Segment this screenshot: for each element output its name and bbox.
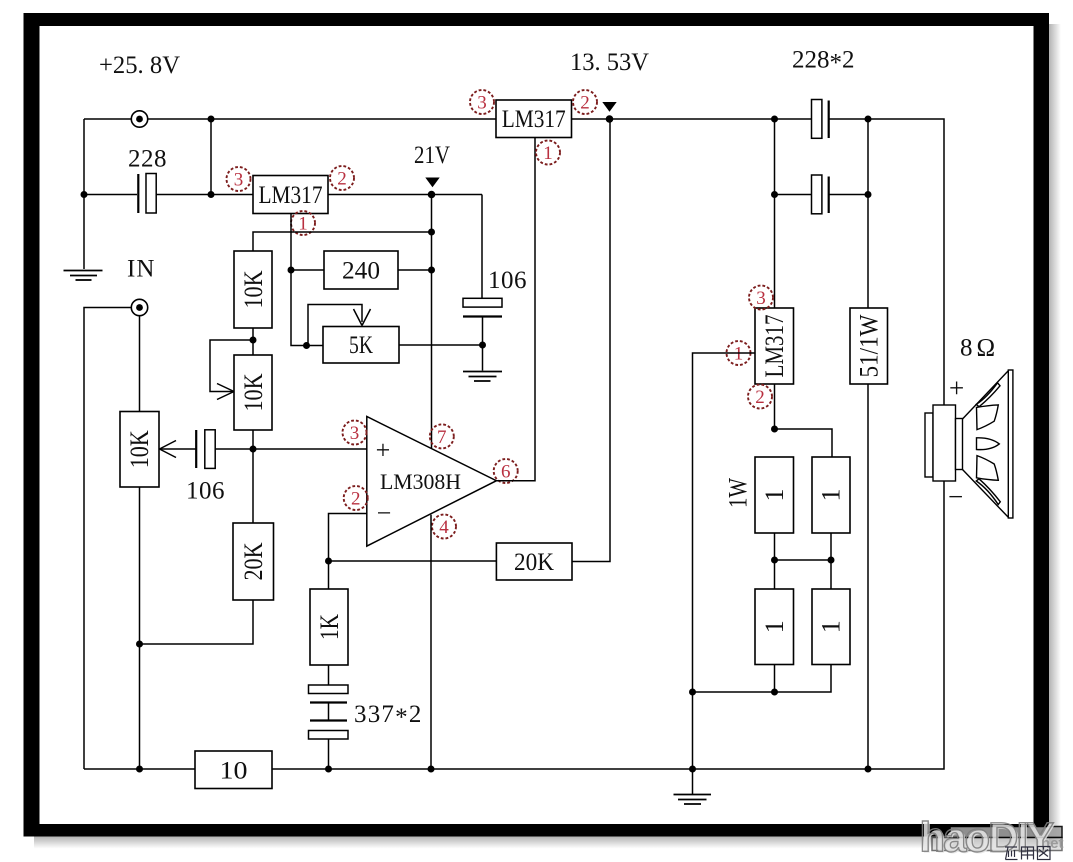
node x431 y270: [428, 267, 435, 274]
svg-text:LM308H: LM308H: [380, 469, 461, 494]
svg-text:106: 106: [488, 267, 527, 294]
resistor R3 10K (input pot): [120, 412, 159, 488]
svg-text:240: 240: [342, 258, 380, 285]
pin 7 U4: [430, 424, 454, 448]
terminal J1 (+25.8V input): [131, 111, 147, 127]
wire C2 to node: [215, 448, 253, 450]
capacitor C3 106: [463, 298, 502, 316]
pin 2 U2: [573, 90, 597, 114]
svg-text:1K: 1K: [315, 614, 344, 640]
svg-text:−: −: [948, 482, 963, 512]
wire rail2 cap to LM317 U1: [157, 194, 254, 196]
wire 20K drop: [252, 449, 254, 523]
svg-text:228: 228: [128, 146, 167, 173]
svg-text:4: 4: [439, 517, 449, 538]
ground G2: [463, 372, 502, 382]
resistor R10 1: [812, 457, 850, 533]
wire left drop to ground: [83, 119, 85, 269]
svg-text:3: 3: [756, 288, 766, 309]
svg-text:+25. 8V: +25. 8V: [99, 52, 180, 79]
pin 6 U4: [494, 459, 518, 483]
node U3 out: [771, 426, 778, 433]
capacitor C2 106: [196, 430, 215, 469]
wiper arrow of 5K: [354, 309, 371, 326]
svg-text:net: net: [1041, 835, 1064, 852]
wire IN terminal to R 10K: [139, 316, 141, 412]
svg-text:10: 10: [220, 758, 248, 785]
wire C4 to C5: [328, 704, 330, 721]
svg-text:1: 1: [817, 620, 846, 633]
op-amp U4 LM308H: [367, 417, 497, 547]
pin 3 U2: [470, 90, 494, 114]
pin 2 U4: [344, 486, 368, 510]
node top rail x211: [208, 116, 215, 123]
svg-text:2: 2: [351, 489, 361, 510]
node top rail x868: [865, 116, 872, 123]
svg-text:2: 2: [755, 387, 765, 408]
regulator U3 LM317: [755, 308, 794, 384]
node R3 bottom x140 y644: [136, 641, 143, 648]
wire C7 left: [775, 194, 812, 196]
node top rail x774: [771, 116, 778, 123]
resistor R13 51/1W: [850, 308, 888, 384]
svg-text:51/1W: 51/1W: [855, 314, 884, 377]
capacitor C4 337: [309, 685, 349, 703]
regulator U2 LM317: [496, 100, 572, 138]
wire R3 bottom to bottom rail: [139, 487, 141, 769]
wire C3 to ground node: [482, 317, 484, 346]
svg-text:337*2: 337*2: [354, 701, 423, 731]
capacitor C1 228: [138, 174, 156, 214]
wire ground stem G3: [692, 769, 694, 794]
wire feedback to 20K: [329, 560, 497, 562]
marker 21V arrow: [425, 178, 439, 188]
pin 1 U1: [291, 211, 315, 235]
pin 3 U3: [749, 286, 773, 310]
svg-text:21V: 21V: [414, 142, 450, 169]
svg-text:7: 7: [437, 427, 447, 448]
regulator U1 LM317: [253, 176, 328, 214]
svg-text:8Ω: 8Ω: [960, 335, 999, 362]
node y232 x431: [428, 229, 435, 236]
node noninverting input: [250, 446, 257, 453]
svg-text:2: 2: [580, 93, 590, 114]
svg-text:13. 53V: 13. 53V: [570, 49, 649, 76]
wire output pin6: [496, 138, 535, 481]
node C3 ground: [479, 342, 486, 349]
wire 21V output column x431: [431, 195, 433, 449]
wire R9 bottom: [774, 533, 776, 589]
wire R2 wiper loop: [210, 340, 253, 392]
svg-text:20K: 20K: [239, 542, 268, 580]
capacitor C7 228: [812, 175, 829, 214]
svg-text:+: +: [949, 373, 964, 403]
wire 240 left: [291, 269, 324, 271]
wire top rail right of U2: [572, 118, 812, 120]
svg-text:IN: IN: [127, 256, 155, 283]
resistor R4 240: [324, 251, 398, 289]
wire 21V node to C3: [481, 195, 483, 299]
wire link x211: [210, 119, 212, 195]
wire U3 pin1 left and down: [693, 353, 756, 692]
wire U1 pin2 to 21V node: [328, 194, 482, 196]
wire C7 right: [830, 194, 869, 196]
node mid right: [828, 557, 835, 564]
watermark haoDIY: [920, 814, 1064, 862]
wire wiper to C2: [160, 448, 196, 450]
wire C5 to bottom rail: [328, 739, 330, 769]
wire 1K to C4: [328, 665, 330, 685]
wire R6 bottom to x140: [140, 600, 254, 644]
capacitor C5 337: [309, 721, 349, 740]
wire 20K right up to top rail: [572, 119, 610, 562]
svg-text:LM317: LM317: [760, 315, 789, 378]
wire x692 to bottom rail: [692, 692, 694, 769]
svg-text:106: 106: [186, 478, 225, 505]
wire ADJ drop to 5K: [291, 270, 323, 346]
ground G1: [64, 271, 103, 281]
svg-text:2: 2: [337, 169, 347, 190]
svg-text:6: 6: [501, 462, 511, 483]
node bottom rail x692: [689, 766, 696, 773]
node mid left: [771, 557, 778, 564]
svg-text:5K: 5K: [349, 332, 373, 359]
capacitor C6 228: [812, 100, 829, 139]
speaker LS1: [925, 370, 1013, 518]
svg-text:1: 1: [817, 489, 846, 502]
svg-text:1: 1: [543, 143, 553, 164]
node 5K left wiper: [303, 342, 310, 349]
svg-text:10K: 10K: [239, 270, 268, 308]
node x774 y194: [771, 191, 778, 198]
wire pin4 down: [430, 515, 432, 769]
pin 2 U1: [330, 166, 354, 190]
wire IN left and down: [84, 308, 131, 770]
svg-text:10K: 10K: [239, 373, 268, 411]
wire rail2 left: [84, 194, 137, 196]
marker 13.53V arrow: [602, 102, 616, 112]
pin 4 U4: [432, 515, 456, 539]
resistor R12 1: [812, 589, 850, 665]
resistor R14 10: [195, 751, 272, 789]
svg-text:228*2: 228*2: [792, 47, 855, 77]
wire inverting input: [329, 514, 367, 562]
pin 3 U4: [343, 421, 367, 445]
svg-text:1: 1: [760, 620, 789, 633]
svg-text:−: −: [377, 499, 392, 528]
node rail2 x211: [208, 191, 215, 198]
svg-text:10K: 10K: [125, 430, 154, 468]
node 13.53V: [606, 115, 614, 123]
wiper arrow of R3: [160, 441, 177, 458]
pin 2 U3: [748, 385, 772, 409]
node feedback: [325, 558, 332, 565]
wire R2 bottom to +input node: [252, 430, 254, 449]
wire U3 pin2 down: [774, 384, 776, 429]
node y692 x774: [771, 689, 778, 696]
wire divider top y232: [253, 232, 432, 251]
wire 240 right: [398, 269, 432, 271]
wire U1 pin1 down: [290, 214, 292, 271]
wire 5K wiper loop: [308, 305, 362, 346]
svg-text:3: 3: [477, 93, 487, 114]
node bottom rail x328: [325, 766, 332, 773]
wire branch to right resistor: [775, 429, 833, 457]
svg-text:3: 3: [350, 423, 360, 444]
resistor R8 1K: [310, 589, 348, 665]
resistor R1 10K: [234, 251, 272, 328]
svg-text:1W: 1W: [724, 478, 753, 508]
label caption chinese: [1005, 847, 1050, 860]
svg-text:LM317: LM317: [259, 182, 323, 209]
node y692 x692: [689, 689, 696, 696]
terminal J2 (IN): [131, 299, 147, 315]
resistor R9 1: [755, 457, 794, 533]
wire 1K top: [328, 561, 330, 589]
potentiometer R5 5K: [323, 327, 399, 364]
svg-text:20K: 20K: [514, 549, 554, 576]
wire node to ground G2: [482, 345, 484, 371]
wire R1 to R2: [252, 328, 254, 355]
wire bottom rail left: [84, 768, 195, 770]
node bottom rail x868: [865, 766, 872, 773]
resistor R6 20K: [233, 523, 274, 600]
wire R12 bottom L: [693, 665, 832, 693]
wire top rail cap to corner: [830, 119, 945, 405]
wire R10 bottom: [830, 533, 832, 589]
node R1-R2 junction: [250, 337, 257, 344]
pin 1 U2: [536, 141, 560, 165]
node bottom rail x431: [428, 766, 435, 773]
node ADJ U1: [288, 267, 295, 274]
node bottom rail x140: [136, 766, 143, 773]
node 228 left x84: [81, 191, 88, 198]
resistor R2 10K: [234, 355, 272, 430]
pin 3 U1: [227, 167, 251, 191]
svg-text:LM317: LM317: [502, 106, 566, 133]
wire top rail left: [84, 118, 131, 120]
wiper arrow of R2: [217, 384, 234, 400]
svg-text:3: 3: [234, 170, 244, 191]
svg-text:1: 1: [734, 344, 744, 365]
pin 1 U3: [727, 341, 751, 365]
wire 5K right to ground node: [399, 344, 483, 346]
resistor R11 1: [755, 589, 794, 665]
svg-text:+: +: [376, 436, 391, 465]
wire x774 down: [774, 119, 776, 308]
wire +input to op-amp: [253, 448, 367, 450]
wire top rail from terminal to LM317 U2: [148, 118, 496, 120]
node x868 y194: [865, 191, 872, 198]
wire x868 down to 51/1W: [867, 119, 869, 308]
wire R11 bottom: [774, 665, 776, 693]
resistor R7 20K (feedback): [496, 543, 572, 580]
svg-text:1: 1: [760, 489, 789, 502]
ground G3: [674, 795, 712, 805]
wire bottom rail right: [272, 481, 944, 769]
wire 51/1W bottom to rail: [867, 384, 869, 769]
wire mid cross: [775, 559, 832, 561]
node 21V: [428, 191, 436, 199]
